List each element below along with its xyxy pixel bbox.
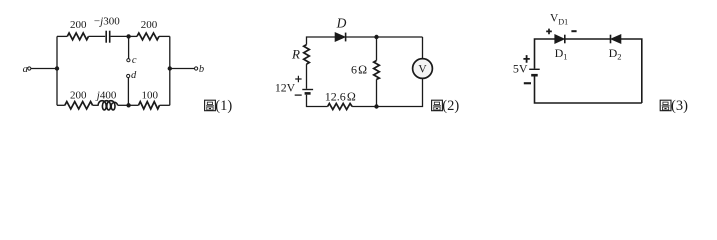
svg-text:D1: D1 — [555, 46, 568, 62]
svg-text:R: R — [291, 47, 300, 62]
plus mark at D1 anode — [546, 29, 552, 35]
svg-text:200: 200 — [70, 19, 87, 31]
wire left vertical — [56, 36, 58, 105]
svg-text:200: 200 — [70, 90, 87, 102]
wire 6ohm branch upper — [376, 37, 378, 61]
battery 12V — [275, 76, 313, 95]
junction dot bottom (node d tap) — [126, 103, 130, 107]
svg-text:5V: 5V — [513, 61, 528, 75]
label V_D1 — [550, 12, 568, 26]
minus mark at D1 cathode — [571, 30, 576, 32]
wire voltmeter to bottom rail — [352, 78, 422, 106]
svg-text:a: a — [23, 64, 28, 75]
resistor 12.6 ohm — [325, 89, 356, 109]
node d terminal — [127, 70, 137, 81]
wire resistor to battery — [306, 64, 308, 89]
node c stub wire — [128, 36, 130, 58]
wire top rail left segment — [57, 35, 67, 37]
wire top-left corner to diode — [307, 37, 336, 45]
resistor 200 top-right — [137, 19, 159, 40]
inductor j400 — [95, 89, 118, 110]
terminal b — [195, 64, 205, 75]
junction dot a — [55, 66, 59, 70]
diode D — [335, 16, 346, 42]
figure label 3 text — [671, 98, 688, 114]
wire junction to resistor 100 — [129, 104, 139, 106]
wire diode to top-right corner — [346, 36, 423, 38]
wire top rail right segment — [159, 35, 170, 37]
figure label 3 glyph tu — [660, 100, 671, 111]
svg-text:D: D — [336, 16, 347, 31]
svg-text:200: 200 — [141, 19, 158, 31]
svg-text:6 Ω: 6 Ω — [351, 63, 367, 77]
wire D1 to D2 — [565, 38, 610, 40]
resistor 100 — [139, 90, 160, 109]
wire top rail to capacitor — [89, 35, 106, 37]
wire top-left corner to diode D1 — [535, 39, 555, 69]
svg-text:d: d — [131, 70, 137, 81]
junction dot top (node c tap) — [126, 34, 130, 38]
resistor 6 ohm — [351, 61, 379, 80]
capacitor -j300 — [94, 16, 120, 43]
voltmeter V — [413, 59, 433, 79]
diode D2 — [611, 35, 621, 44]
svg-text:b: b — [199, 64, 204, 75]
figure label 2 glyph tu — [432, 100, 443, 111]
wire top rail to voltmeter — [422, 37, 424, 59]
svg-text:(1): (1) — [215, 98, 232, 114]
wire bottom rail left segment — [57, 104, 65, 106]
svg-text:(2): (2) — [442, 98, 459, 114]
svg-text:12V: 12V — [275, 80, 296, 94]
svg-text:j400: j400 — [95, 89, 117, 101]
wire b rail to terminal — [170, 68, 195, 70]
svg-text:(3): (3) — [671, 98, 688, 114]
svg-text:V: V — [418, 64, 427, 76]
node d stub wire — [127, 78, 129, 106]
wire battery to bottom rail — [307, 95, 328, 107]
wire right vertical — [169, 36, 171, 105]
svg-text:D2: D2 — [609, 46, 622, 62]
wire bottom rail right segment — [160, 104, 170, 106]
battery 5V — [513, 55, 540, 84]
wire battery to bottom rail — [535, 77, 642, 104]
svg-text:−j300: −j300 — [94, 16, 120, 28]
svg-text:VD1: VD1 — [550, 12, 568, 26]
wire junction to resistor — [129, 35, 137, 37]
figure label 1 glyph tu — [205, 100, 216, 111]
figure label 2 text — [442, 98, 459, 114]
label D2 — [609, 46, 622, 62]
wire capacitor to node c junction — [111, 35, 129, 37]
label D1 — [555, 46, 568, 62]
resistor 200 bottom — [65, 90, 93, 109]
resistor 200 top-left — [67, 19, 88, 40]
junction dot bottom 6ohm branch — [374, 104, 378, 108]
resistor R vertical — [291, 45, 309, 65]
svg-text:12.6 Ω: 12.6 Ω — [325, 89, 356, 103]
junction dot top 6ohm branch — [374, 35, 378, 39]
wire a to left rail — [31, 68, 57, 70]
wire 6ohm branch lower — [376, 79, 378, 106]
svg-text:c: c — [132, 55, 137, 66]
figure label 1 text — [215, 98, 232, 114]
terminal a — [23, 64, 31, 75]
wire D2 to top-right corner and right vertical — [621, 39, 642, 103]
svg-text:100: 100 — [142, 90, 159, 102]
diode D1 — [555, 35, 565, 44]
wire bottom rail to inductor — [93, 104, 99, 106]
wire inductor to junction — [118, 104, 129, 106]
junction dot b — [168, 66, 172, 70]
node c terminal — [127, 55, 137, 66]
